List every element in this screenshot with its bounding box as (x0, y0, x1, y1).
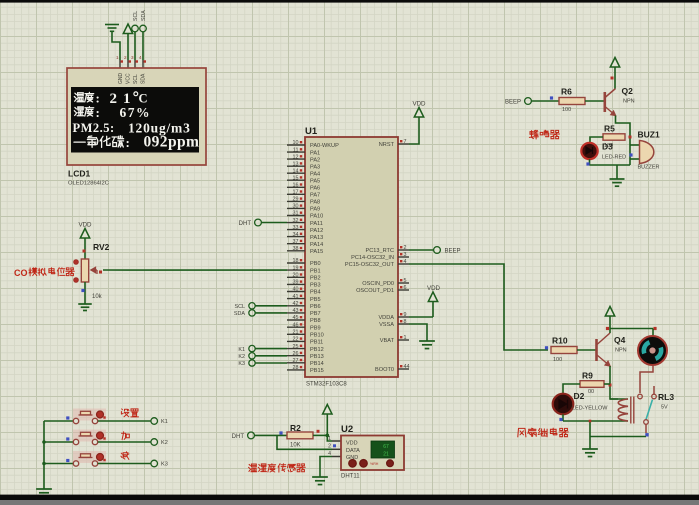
power VDD (Q4 collector) (605, 307, 614, 334)
LCD text line3 PM2.5 (73, 120, 191, 135)
wire PC13 to BEEP terminal (409, 249, 434, 251)
resistor R2 (287, 432, 313, 439)
relay RL3 switch contacts (638, 386, 657, 437)
svg-text:9: 9 (404, 312, 407, 318)
resistor R10 (545, 346, 577, 353)
terminal K2 (at PB13) (238, 353, 255, 360)
svg-text:SCL: SCL (235, 304, 246, 310)
wire R5 left to LED D3 (590, 137, 603, 143)
svg-text:PA6: PA6 (310, 186, 320, 192)
svg-text:PA8: PA8 (310, 200, 320, 206)
svg-text:67: 67 (383, 444, 389, 450)
svg-text:13: 13 (293, 161, 299, 167)
svg-text:26: 26 (293, 351, 299, 357)
svg-text:R10: R10 (552, 336, 568, 346)
svg-text:D2: D2 (574, 391, 585, 401)
LCD1 display module body (67, 68, 206, 165)
wire VDD node to motor (610, 327, 657, 336)
wire VSSA to ground (409, 324, 427, 341)
svg-text:PA13: PA13 (310, 235, 323, 241)
terminal K3 (151, 460, 168, 468)
svg-text:30: 30 (293, 204, 299, 210)
ground (VSSA) (419, 340, 435, 342)
bottom black bar (0, 495, 699, 500)
svg-text:7: 7 (404, 139, 407, 145)
wire DHT terminal to PA11 (262, 222, 288, 224)
svg-text:1: 1 (404, 335, 407, 341)
terminal SCL (top) (132, 11, 139, 60)
IC U1 STM32F103C8 body (305, 137, 398, 377)
U2 pin stubs (328, 436, 341, 457)
svg-text:GND: GND (118, 73, 124, 85)
svg-text:4: 4 (404, 259, 407, 265)
wire D3 cathode to ground rail (586, 159, 630, 165)
svg-text:17: 17 (293, 190, 299, 196)
svg-text:PA3: PA3 (310, 164, 320, 170)
resistor R9 (580, 381, 604, 388)
svg-text:PA9: PA9 (310, 207, 320, 213)
note fan relay (red chinese) (518, 428, 526, 437)
ground (relay) (582, 448, 598, 450)
svg-text:15: 15 (293, 175, 299, 181)
terminal K2 (151, 439, 168, 447)
svg-text:2: 2 (404, 245, 407, 251)
wire R6 to Q2 base (585, 100, 604, 102)
svg-text:PC13_RTC: PC13_RTC (366, 248, 395, 254)
svg-text:3: 3 (131, 55, 134, 60)
svg-text:VSSA: VSSA (379, 322, 394, 328)
svg-text:OLED12864I2C: OLED12864I2C (68, 181, 109, 187)
svg-text:14: 14 (293, 168, 299, 174)
svg-text:LED-YELLOW: LED-YELLOW (572, 406, 608, 412)
svg-text:PA11: PA11 (310, 221, 323, 227)
svg-text:37: 37 (293, 239, 299, 245)
svg-text:45: 45 (293, 315, 299, 321)
note buzzer (red chinese) (529, 130, 538, 139)
LCD text line2 shi-du: 67% (74, 105, 151, 120)
svg-text:5: 5 (404, 278, 407, 284)
svg-text:21: 21 (383, 452, 389, 458)
power VDD (Q2 collector) (610, 58, 619, 89)
svg-text:PB10: PB10 (310, 333, 324, 339)
svg-text:40: 40 (293, 287, 299, 293)
wire Q4 emitter to relay coil (609, 366, 619, 399)
svg-text:VCC: VCC (126, 73, 132, 84)
wire RV2 wiper to PB1 (103, 269, 287, 271)
power VDD (RV2) (78, 222, 92, 260)
wire R9 right to emitter net (604, 383, 610, 385)
svg-text:4: 4 (139, 55, 142, 60)
svg-text:PA5: PA5 (310, 178, 320, 184)
svg-text:31: 31 (293, 211, 299, 217)
svg-text:Q2: Q2 (622, 86, 634, 96)
svg-text:DATA: DATA (346, 448, 360, 454)
wire button ground bus (42, 421, 46, 489)
svg-text:D3: D3 (602, 142, 613, 152)
note set (red chinese) (121, 409, 128, 417)
svg-text:NPN: NPN (615, 348, 627, 354)
svg-text:PB7: PB7 (310, 311, 321, 317)
wire Q2 emitter to node (616, 116, 631, 166)
terminal BEEP (buzzer side) (505, 98, 531, 106)
svg-text:VDDA: VDDA (378, 315, 394, 321)
svg-text:PB2: PB2 (310, 276, 321, 282)
power VDD (near OSC pins) (427, 285, 441, 317)
resistor R6 (559, 98, 585, 105)
sensor U2 DHT11 body (341, 436, 404, 471)
svg-text:1: 1 (116, 55, 119, 60)
svg-text:PB5: PB5 (310, 297, 321, 303)
svg-text:PB3: PB3 (310, 283, 321, 289)
svg-text:PB14: PB14 (310, 361, 324, 367)
svg-text:R6: R6 (561, 87, 572, 97)
note CO analog potentiometer (red) (14, 268, 74, 278)
wire U2 GND pin to ground (320, 457, 332, 478)
svg-text:DHT: DHT (239, 221, 252, 227)
svg-text:RL3: RL3 (658, 392, 674, 402)
note minus (red chinese) (121, 452, 129, 460)
svg-text:43: 43 (293, 308, 299, 314)
svg-text:K2: K2 (161, 440, 168, 446)
power VDD (DHT11) (323, 405, 332, 436)
svg-text:22: 22 (293, 337, 299, 343)
note plus (red chinese) (122, 432, 130, 440)
svg-text:OSCIN_PD0: OSCIN_PD0 (362, 281, 394, 287)
svg-text:K2: K2 (238, 354, 245, 360)
svg-text:25: 25 (293, 344, 299, 350)
wire NRST to VDD (409, 117, 419, 144)
svg-text:BEEP: BEEP (505, 100, 521, 106)
svg-text:BOOT0: BOOT0 (375, 367, 394, 373)
svg-text:100: 100 (562, 107, 571, 113)
LCD text line4 yi-yang-hua-tan: 092ppm (74, 134, 199, 151)
terminal SDA (at PB7) (234, 310, 255, 318)
motor (fan) (638, 336, 667, 365)
ground (buzzer) (610, 165, 625, 186)
svg-text:2: 2 (328, 444, 331, 450)
wire K3 to PB14 (255, 362, 287, 364)
svg-text:LED-RED: LED-RED (602, 155, 626, 161)
top black bar (0, 0, 699, 3)
button K2 (44, 430, 151, 445)
svg-text:BUZ1: BUZ1 (638, 130, 660, 140)
svg-text:33: 33 (293, 225, 299, 231)
svg-text:PB6: PB6 (310, 304, 321, 310)
svg-text:100: 100 (553, 357, 562, 363)
svg-text:OSCOUT_PD1: OSCOUT_PD1 (356, 288, 394, 294)
button K3 (44, 451, 151, 466)
svg-text:K1: K1 (238, 347, 245, 353)
ground (LCD GND pin) (105, 25, 120, 61)
svg-text:R2: R2 (290, 423, 301, 433)
terminal DHT (sensor side) (232, 432, 255, 440)
buzzer BUZ1 (629, 141, 653, 164)
transistor Q2 NPN (605, 89, 616, 116)
svg-text:34: 34 (293, 232, 299, 238)
LCD screen (71, 87, 199, 153)
terminal BEEP (at U1) (434, 247, 461, 255)
transistor Q4 NPN (597, 333, 611, 366)
svg-text:SCL: SCL (133, 11, 139, 21)
svg-text:46: 46 (293, 322, 299, 328)
svg-text:18: 18 (293, 258, 299, 264)
svg-text::: : (96, 105, 100, 120)
svg-text:Q4: Q4 (614, 335, 626, 345)
svg-text:32: 32 (293, 218, 299, 224)
junction R5 right (629, 136, 632, 139)
svg-text:C: C (139, 92, 148, 106)
svg-text:VBAT: VBAT (380, 338, 395, 344)
resistor R5 (603, 134, 625, 140)
wire data branch down to U2 pin2 (277, 435, 332, 449)
svg-text:39: 39 (293, 280, 299, 286)
svg-text:PB13: PB13 (310, 354, 324, 360)
svg-text:U1: U1 (305, 126, 318, 137)
svg-text:DHT11: DHT11 (341, 474, 360, 480)
svg-text:PC14-OSC32_IN: PC14-OSC32_IN (351, 255, 394, 261)
note temperature humidity sensor (red chinese) (249, 464, 257, 472)
svg-text:K1: K1 (161, 419, 168, 425)
svg-text:BEEP: BEEP (445, 249, 461, 255)
svg-text:R9: R9 (582, 371, 593, 381)
svg-text:PB0: PB0 (310, 261, 321, 267)
svg-text:6: 6 (404, 285, 407, 291)
svg-text:10K: 10K (290, 443, 301, 449)
LCD text line1 wen-du: 21 C (74, 91, 147, 107)
power VDD (LCD VCC pin) (123, 24, 132, 60)
svg-text:PB15: PB15 (310, 368, 324, 374)
power VDD (NRST) (412, 101, 426, 118)
svg-text:PB1: PB1 (310, 268, 321, 274)
wire BEEP to R6 (531, 96, 559, 101)
U1 left pins PB0-PB15 (287, 258, 324, 374)
LCD pin stubs and numbers (116, 55, 146, 68)
svg-text:RV2: RV2 (93, 242, 110, 252)
svg-text:PA10: PA10 (310, 214, 323, 220)
svg-text:41: 41 (293, 294, 299, 300)
wire K1 to PB12 (255, 348, 287, 350)
svg-text:PA2: PA2 (310, 157, 320, 163)
wire K2 to PB13 (255, 355, 287, 357)
svg-text:PA15: PA15 (310, 249, 323, 255)
wire DHT to R2 (254, 431, 287, 435)
svg-text:R5: R5 (604, 124, 615, 134)
svg-text:SDA: SDA (141, 73, 147, 84)
svg-text:U2: U2 (341, 424, 353, 435)
svg-text:29: 29 (293, 197, 299, 203)
wire R9 left to LED D2 (563, 384, 580, 394)
svg-text:DHT: DHT (232, 434, 245, 440)
terminal SDA (top) (140, 10, 147, 60)
svg-text:VDD: VDD (346, 441, 358, 447)
svg-text:PB11: PB11 (310, 340, 323, 346)
svg-text:21: 21 (293, 330, 299, 336)
LED D3 LED-RED (581, 143, 597, 159)
wire ground stem (relay) (589, 420, 592, 449)
ground (buttons) (36, 488, 52, 490)
svg-text:PA14: PA14 (310, 242, 323, 248)
svg-text:27: 27 (293, 358, 299, 364)
svg-text:VDD: VDD (427, 285, 441, 292)
svg-text:1: 1 (328, 436, 331, 442)
svg-text:092ppm: 092ppm (144, 134, 200, 151)
potentiometer RV2 (74, 250, 102, 283)
svg-text:PA4: PA4 (310, 171, 320, 177)
svg-text:2: 2 (124, 55, 127, 60)
svg-text:11: 11 (293, 147, 299, 153)
svg-text:CO: CO (14, 268, 28, 278)
svg-text:PC15-OSC32_OUT: PC15-OSC32_OUT (345, 262, 395, 268)
svg-text:16: 16 (293, 183, 299, 189)
svg-text:19: 19 (293, 265, 299, 271)
svg-text:PB8: PB8 (310, 318, 321, 324)
wire SDA to PB7 (255, 312, 287, 314)
button K1 (44, 409, 151, 424)
svg-text:00: 00 (588, 389, 594, 395)
terminal K1 (at PB12) (238, 345, 255, 353)
svg-text:PA12: PA12 (310, 228, 323, 234)
ground (RV2) (78, 303, 92, 305)
wire PC15-OSC32_OUT to R10 (net to fan driver) (409, 264, 548, 350)
svg-text:10k: 10k (92, 294, 103, 300)
junction R2 right (317, 430, 320, 433)
wire SCL to PB6 (255, 305, 287, 307)
ground (DHT11) (312, 476, 328, 478)
svg-text:PB12: PB12 (310, 347, 324, 353)
terminal K1 (151, 418, 168, 426)
wire RV2 bottom to ground (81, 282, 85, 304)
svg-text:LCD1: LCD1 (68, 169, 90, 179)
terminal DHT (at PA11) (239, 219, 262, 227)
svg-text:28: 28 (293, 365, 299, 371)
svg-text:SDA: SDA (234, 311, 245, 317)
svg-text:STM32F103C8: STM32F103C8 (306, 382, 347, 388)
terminal K3 (at PB14) (238, 360, 255, 367)
svg-text:K3: K3 (238, 361, 245, 367)
svg-text:8: 8 (404, 319, 407, 325)
LED D2 LED-YELLOW (553, 394, 574, 415)
svg-text:42: 42 (293, 301, 299, 307)
wire R2 to VDD node and U2 pin1 (313, 434, 332, 442)
svg-text::: : (126, 135, 130, 150)
wire relay pole to ground rail (590, 436, 646, 438)
wire D2 cathode to bottom rail (559, 414, 628, 421)
svg-text:NRST: NRST (379, 142, 395, 148)
svg-text:PM2.5:: PM2.5: (73, 121, 115, 135)
U1 left pins PA0-PA15 (287, 140, 339, 255)
svg-text:44: 44 (404, 364, 410, 370)
svg-text:PA7: PA7 (310, 193, 320, 199)
svg-text:5V: 5V (661, 405, 668, 411)
svg-text:SDA: SDA (141, 10, 147, 21)
terminal SCL (at PB6) (235, 303, 256, 310)
svg-text:PB4: PB4 (310, 290, 321, 296)
svg-text:K3: K3 (161, 462, 168, 468)
wire motor to relay contact (640, 365, 653, 393)
svg-text:38: 38 (293, 246, 299, 252)
svg-text:NPN: NPN (623, 99, 635, 105)
svg-text:SCL: SCL (133, 74, 139, 84)
svg-text:10: 10 (293, 140, 299, 146)
svg-text::: : (96, 91, 100, 106)
svg-text:PB9: PB9 (310, 325, 321, 331)
relay RL3 coil (610, 397, 634, 424)
U1 right pins (345, 139, 410, 373)
svg-text:3: 3 (404, 252, 407, 258)
svg-text:67%: 67% (120, 105, 152, 120)
wire R10 to Q4 base (577, 349, 596, 351)
svg-text:PA1: PA1 (310, 150, 320, 156)
wire VDDA to VDD (409, 316, 433, 318)
svg-text:12: 12 (293, 154, 299, 160)
svg-text:20: 20 (293, 273, 299, 279)
svg-text:PA0-WKUP: PA0-WKUP (310, 143, 339, 149)
svg-text:%RH: %RH (370, 462, 379, 466)
svg-text:BUZZER: BUZZER (638, 165, 660, 171)
